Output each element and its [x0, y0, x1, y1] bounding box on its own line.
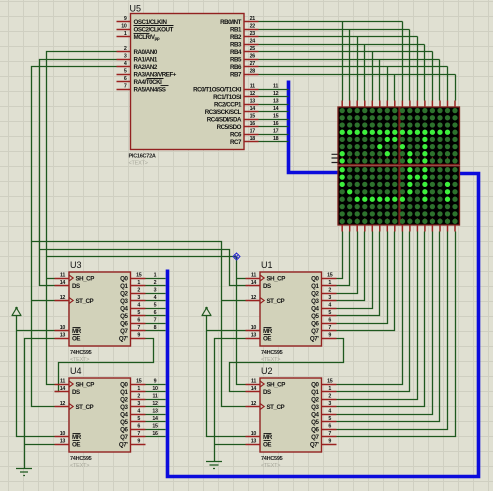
wire RA1/DS net from pin 3	[40, 60, 117, 286]
svg-text:5: 5	[124, 69, 127, 75]
svg-text:RB1: RB1	[230, 26, 242, 33]
svg-text:Q7’: Q7’	[310, 335, 319, 342]
pin 13 (OE) of U1	[246, 333, 272, 343]
svg-text:Q0: Q0	[311, 275, 319, 282]
wire U2 Q6 to matrix column 15	[337, 232, 448, 430]
wire column 8 vertical	[394, 75, 396, 101]
svg-text:6: 6	[124, 76, 127, 82]
svg-text:9: 9	[137, 333, 140, 339]
svg-text:12: 12	[60, 401, 66, 407]
svg-text:6: 6	[154, 310, 157, 316]
pin 22 (RB1) of U5	[230, 24, 259, 34]
svg-text:3: 3	[328, 295, 331, 301]
pin 14 (DS) of U2	[246, 386, 272, 396]
pin 23 (RB2) of U5	[230, 31, 259, 41]
pin 1 (Q1) of U3	[120, 280, 145, 290]
pin 3 (Q3) of U4	[120, 401, 145, 411]
wire branch to U3 SH_CP	[47, 278, 55, 280]
svg-text:16: 16	[250, 121, 256, 127]
svg-text:Q3: Q3	[120, 298, 128, 305]
pin 7 (Q7) of U2	[311, 431, 336, 441]
pin 6 (Q6) of U2	[311, 424, 336, 434]
svg-text:DS: DS	[72, 389, 80, 396]
pin 14 (DS) of U3	[55, 280, 81, 290]
svg-text:16: 16	[152, 431, 158, 437]
svg-text:1: 1	[328, 386, 331, 392]
svg-text:ST_CP: ST_CP	[267, 404, 285, 411]
pin 11 (SH_CP) of U4	[55, 379, 95, 389]
svg-text:14: 14	[60, 280, 66, 286]
svg-text:2: 2	[137, 394, 140, 400]
svg-text:Q3: Q3	[311, 298, 319, 305]
svg-text:Q2: Q2	[311, 290, 319, 297]
svg-text:Q0: Q0	[120, 381, 128, 388]
svg-text:15: 15	[327, 273, 333, 279]
pin 13 (OE) of U3	[55, 333, 81, 343]
svg-text:Q7: Q7	[311, 434, 319, 441]
svg-text:RC0/T1OSO/T1CKI: RC0/T1OSO/T1CKI	[193, 86, 242, 93]
svg-text:7: 7	[328, 325, 331, 331]
wire U2 Q3 to matrix column 12	[337, 232, 425, 407]
svg-text:RC2/CCP1: RC2/CCP1	[214, 101, 242, 108]
svg-text:10: 10	[152, 386, 158, 392]
svg-text:Q1: Q1	[311, 283, 319, 290]
svg-text:10: 10	[60, 431, 66, 437]
svg-text:12: 12	[273, 91, 279, 97]
wire U1 Q6 to matrix column 7	[337, 232, 388, 324]
wire RB6 (pin 27) to matrix columns 7 and 15	[259, 66, 448, 68]
svg-text:Q1: Q1	[120, 283, 128, 290]
svg-text:9: 9	[328, 439, 331, 445]
wire U3 Q0 net 1	[146, 278, 166, 280]
wire U4 Q7 net 16	[146, 436, 166, 438]
svg-text:RA0/AN0: RA0/AN0	[134, 49, 158, 56]
svg-text:11: 11	[251, 273, 256, 279]
pin 16 (RC5/SDO) of U5	[217, 121, 259, 131]
pin 5 (Q5) of U2	[311, 416, 336, 426]
svg-text:13: 13	[60, 333, 66, 339]
bus from RC pins to matrix row pins (left)	[289, 81, 339, 173]
svg-text:DS: DS	[263, 389, 271, 396]
pin 5 (Q5) of U1	[311, 310, 336, 320]
svg-text:<TEXT>: <TEXT>	[261, 357, 280, 363]
svg-text:74HC595: 74HC595	[261, 350, 283, 356]
svg-text:Q2: Q2	[311, 396, 319, 403]
svg-text:74HC595: 74HC595	[70, 456, 92, 462]
pin 5 (RA3/AN3/VREF+) of U5	[117, 69, 177, 79]
wire VCC to U1 MR and U2 MR	[207, 316, 246, 437]
svg-text:4: 4	[137, 409, 140, 415]
svg-text:15: 15	[136, 273, 142, 279]
pin 15 (RC4/SDI/SDA) of U5	[207, 114, 259, 124]
pin 15 (Q0) of U4	[120, 379, 145, 389]
wire U3 OE / U4 OE to ground	[25, 339, 55, 469]
wire RC3 (pin 14) to row bus	[259, 111, 289, 113]
svg-text:3: 3	[154, 288, 157, 294]
svg-text:Q6: Q6	[311, 426, 319, 433]
pin 5 (Q5) of U4	[120, 416, 145, 426]
svg-text:13: 13	[152, 409, 158, 415]
svg-text:11: 11	[60, 273, 65, 279]
pin 1 (Q1) of U4	[120, 386, 145, 396]
svg-text:PIC16C72A: PIC16C72A	[129, 154, 156, 160]
wire U4 Q5 net 14	[146, 421, 166, 423]
wire RB3 (pin 24) to matrix columns 4 and 12	[259, 44, 425, 46]
svg-text:<TEXT>: <TEXT>	[70, 463, 89, 469]
svg-text:RA1/AN1: RA1/AN1	[134, 56, 158, 63]
svg-text:6: 6	[328, 424, 331, 430]
wire U1 Q2 to matrix column 3	[337, 232, 358, 294]
pin 3 (Q3) of U1	[311, 295, 336, 305]
svg-text:MR: MR	[263, 328, 273, 335]
net label 16	[152, 431, 158, 437]
svg-text:RC5/SDO: RC5/SDO	[217, 124, 242, 131]
wire cascade U1 Q7' to U2 DS	[230, 339, 344, 392]
svg-text:11: 11	[250, 84, 255, 90]
net label 14	[152, 416, 158, 422]
svg-text:Q7’: Q7’	[119, 441, 128, 448]
wire RC1 (pin 12) to row bus	[259, 96, 289, 98]
svg-text:4: 4	[328, 303, 331, 309]
svg-text:25: 25	[250, 46, 256, 52]
net label 17	[273, 129, 279, 135]
wire RB4 (pin 25) to matrix columns 5 and 13	[259, 51, 433, 53]
pin 12 (ST_CP) of U1	[246, 295, 285, 305]
wire column 13 vertical	[432, 52, 434, 101]
wire column 1 vertical	[342, 22, 344, 101]
svg-text:4: 4	[154, 295, 157, 301]
svg-text:7: 7	[328, 431, 331, 437]
net label 10	[152, 386, 158, 392]
pin 9 (OSC1/CLKIN) of U5	[117, 16, 168, 26]
svg-text:12: 12	[251, 401, 257, 407]
svg-text:Q1: Q1	[120, 389, 128, 396]
net label 12	[152, 401, 158, 407]
pin 2 (Q2) of U2	[311, 394, 336, 404]
svg-text:Q6: Q6	[120, 320, 128, 327]
pin 1 (Q1) of U1	[311, 280, 336, 290]
bus from U3/U4 outputs around bottom to matrix right	[168, 174, 479, 477]
svg-text:12: 12	[152, 401, 158, 407]
pin 14 (DS) of U1	[246, 280, 272, 290]
svg-text:RC7: RC7	[230, 139, 242, 146]
pin 13 (OE) of U2	[246, 439, 272, 449]
net label 13	[273, 99, 279, 105]
pin 12 (ST_CP) of U3	[55, 295, 94, 305]
svg-text:12: 12	[250, 91, 256, 97]
wire branch to U2 OE	[215, 444, 246, 446]
LED dot-matrix display 16x16 (four 8x8 modules)	[338, 107, 460, 225]
pin 6 (Q6) of U3	[120, 318, 145, 328]
svg-text:5: 5	[328, 310, 331, 316]
pin 2 (Q2) of U1	[311, 288, 336, 298]
wire U3 Q5 net 6	[146, 315, 166, 317]
svg-text:U3: U3	[70, 260, 82, 270]
wire U4 Q4 net 13	[146, 414, 166, 416]
svg-text:6: 6	[137, 318, 140, 324]
svg-text:5: 5	[154, 303, 157, 309]
svg-text:Q1: Q1	[311, 389, 319, 396]
wire RB2 (pin 23) to matrix columns 3 and 11	[259, 36, 418, 38]
svg-text:U4: U4	[70, 366, 82, 376]
wire U4 Q2 net 11	[146, 399, 166, 401]
wire branch to U1 SH_CP	[237, 278, 246, 280]
wire column 11 vertical	[417, 37, 419, 101]
wire column 16 vertical	[455, 75, 457, 101]
svg-text:OE: OE	[72, 335, 80, 342]
wire RB5 (pin 26) to matrix columns 6 and 14	[259, 59, 440, 61]
svg-text:9: 9	[328, 333, 331, 339]
net label 5	[154, 303, 157, 309]
svg-text:28: 28	[250, 69, 256, 75]
svg-text:OSC1/CLKIN: OSC1/CLKIN	[134, 19, 168, 26]
wire branch to U3 MR	[17, 330, 55, 332]
svg-text:9: 9	[154, 379, 157, 385]
svg-text:OSC2/CLKOUT: OSC2/CLKOUT	[134, 26, 174, 33]
net label 16	[273, 121, 279, 127]
net label 12	[273, 91, 279, 97]
wire U2 Q4 to matrix column 13	[337, 232, 433, 415]
svg-text:11: 11	[273, 84, 278, 90]
svg-text:SH_CP: SH_CP	[76, 275, 95, 282]
svg-text:13: 13	[251, 333, 257, 339]
pin 3 (RA1/AN1) of U5	[117, 54, 158, 64]
wire U2 Q7 to matrix column 16	[337, 232, 456, 437]
svg-text:14: 14	[273, 106, 279, 112]
pin 15 (Q0) of U2	[311, 379, 336, 389]
svg-text:Q2: Q2	[120, 290, 128, 297]
wire RC2 (pin 13) to row bus	[259, 104, 289, 106]
pin 10 (MR) of U4	[55, 431, 82, 441]
wire RA2/ST_CP net from pin 4	[32, 67, 117, 407]
wire VCC to U3 MR and U4 MR	[17, 316, 55, 437]
pin 2 (RA0/AN0) of U5	[117, 46, 158, 56]
svg-text:23: 23	[250, 31, 256, 37]
wire column 2 vertical	[349, 30, 351, 101]
net label 1	[154, 273, 157, 279]
svg-text:RB4: RB4	[230, 49, 242, 56]
svg-text:DS: DS	[263, 283, 271, 290]
svg-text:27: 27	[250, 61, 256, 67]
svg-text:4: 4	[328, 409, 331, 415]
pin 13 (OE) of U4	[55, 439, 81, 449]
svg-text:Q5: Q5	[120, 419, 128, 426]
wire U3 Q3 net 4	[146, 300, 166, 302]
svg-text:6: 6	[328, 318, 331, 324]
net label 15	[152, 424, 158, 430]
svg-text:17: 17	[273, 129, 279, 135]
svg-text:1: 1	[154, 273, 157, 279]
wire RC4 (pin 15) to row bus	[259, 119, 289, 121]
svg-text:24: 24	[250, 39, 256, 45]
svg-text:Q0: Q0	[311, 381, 319, 388]
svg-text:RB5: RB5	[230, 56, 242, 63]
net label 7	[154, 318, 157, 324]
svg-text:16: 16	[273, 121, 279, 127]
svg-text:Q4: Q4	[311, 411, 319, 418]
svg-text:Q5: Q5	[311, 313, 319, 320]
wire U1 Q3 to matrix column 4	[337, 232, 365, 301]
svg-text:7: 7	[124, 84, 127, 90]
pin 2 (Q2) of U4	[120, 394, 145, 404]
pin 6 (Q6) of U4	[120, 424, 145, 434]
wire column 12 vertical	[424, 45, 426, 101]
pin 1 (MCLR/V|pp) of U5	[117, 31, 160, 41]
svg-text:11: 11	[251, 379, 256, 385]
wire RC0 (pin 11) to row bus	[259, 89, 289, 91]
svg-text:ST_CP: ST_CP	[267, 298, 285, 305]
svg-text:<TEXT>: <TEXT>	[70, 357, 89, 363]
svg-text:14: 14	[250, 106, 256, 112]
svg-text:10: 10	[121, 24, 127, 30]
net label 4	[154, 295, 157, 301]
svg-text:13: 13	[250, 99, 256, 105]
svg-text:1: 1	[328, 280, 331, 286]
wire column 3 vertical	[357, 37, 359, 101]
svg-text:RC6: RC6	[230, 131, 242, 138]
pin 9 (Q7’) of U4	[119, 439, 146, 449]
svg-text:U5: U5	[130, 4, 142, 14]
wire U4 Q1 net 10	[146, 391, 166, 393]
wire RA0/SH_CP net from pin 2 down left side	[47, 52, 117, 385]
pin 9 (Q7’) of U3	[119, 333, 146, 343]
wire U1 Q7 to matrix column 8	[337, 232, 395, 331]
svg-text:3: 3	[137, 401, 140, 407]
wire U3 Q6 net 7	[146, 323, 166, 325]
pin 7 (Q7) of U1	[311, 325, 336, 335]
svg-text:Q5: Q5	[120, 313, 128, 320]
pin 4 (Q4) of U4	[120, 409, 145, 419]
svg-text:RB2: RB2	[230, 34, 242, 41]
svg-text:10: 10	[251, 431, 257, 437]
pin 14 (RC3/SCK/SCL) of U5	[205, 106, 259, 116]
svg-text:RB3: RB3	[230, 41, 242, 48]
net label 6	[154, 310, 157, 316]
pin 10 (OSC2/CLKOUT) of U5	[117, 24, 174, 34]
svg-text:2: 2	[124, 46, 127, 52]
svg-text:DS: DS	[72, 283, 80, 290]
svg-text:5: 5	[328, 416, 331, 422]
svg-text:8: 8	[154, 325, 157, 331]
wire RB1 (pin 22) to matrix columns 2 and 10	[259, 29, 410, 31]
svg-text:17: 17	[250, 129, 256, 135]
wire U3 Q1 net 2	[146, 285, 166, 287]
svg-text:Q7: Q7	[311, 328, 319, 335]
svg-text:U1: U1	[261, 260, 273, 270]
svg-text:15: 15	[152, 424, 158, 430]
wire U1 Q1 to matrix column 2	[337, 232, 350, 286]
svg-text:<TEXT>: <TEXT>	[129, 161, 148, 167]
svg-text:SH_CP: SH_CP	[267, 381, 286, 388]
wire column 10 vertical	[409, 30, 411, 101]
pin 25 (RB4) of U5	[230, 46, 259, 56]
pin 6 (Q6) of U1	[311, 318, 336, 328]
svg-text:18: 18	[273, 136, 279, 142]
svg-text:MR: MR	[263, 434, 273, 441]
power terminal VCC for U3/U4 MR	[12, 307, 22, 316]
svg-text:OE: OE	[72, 441, 80, 448]
pin 4 (Q4) of U2	[311, 409, 336, 419]
svg-text:2: 2	[137, 288, 140, 294]
pin 10 (MR) of U1	[246, 325, 273, 335]
pin 24 (RB3) of U5	[230, 39, 259, 49]
wire U4 Q3 net 12	[146, 406, 166, 408]
wire RC7 (pin 18) to row bus	[259, 141, 289, 143]
pin 27 (RB6) of U5	[230, 61, 259, 71]
svg-text:Q4: Q4	[311, 305, 319, 312]
svg-text:MR: MR	[72, 328, 82, 335]
svg-text:OE: OE	[263, 335, 271, 342]
svg-text:Q7: Q7	[120, 328, 128, 335]
wire column 5 vertical	[372, 52, 374, 101]
matrix left-side row pin marks	[332, 154, 338, 162]
svg-text:ST_CP: ST_CP	[76, 404, 94, 411]
svg-text:74HC595: 74HC595	[261, 456, 283, 462]
IC U4 (74HC595)	[55, 366, 146, 469]
svg-text:RC1/T1OSI: RC1/T1OSI	[213, 94, 242, 101]
pin 3 (Q3) of U3	[120, 295, 145, 305]
svg-text:2: 2	[154, 280, 157, 286]
svg-text:14: 14	[152, 416, 158, 422]
svg-text:18: 18	[250, 136, 256, 142]
pin 28 (RB7) of U5	[230, 69, 259, 79]
pin 11 (SH_CP) of U1	[246, 273, 286, 283]
pin 7 (RA5/AN4/SS) of U5	[117, 84, 169, 94]
pin 21 (RB0/INT) of U5	[220, 16, 258, 26]
svg-text:Q5: Q5	[311, 419, 319, 426]
svg-text:14: 14	[60, 386, 66, 392]
svg-text:7: 7	[137, 431, 140, 437]
svg-text:11: 11	[60, 379, 65, 385]
svg-text:RB7: RB7	[230, 71, 242, 78]
net label 3	[154, 288, 157, 294]
wire RC5 (pin 16) to row bus	[259, 126, 289, 128]
svg-text:26: 26	[250, 54, 256, 60]
svg-text:U2: U2	[261, 366, 273, 376]
svg-text:6: 6	[137, 424, 140, 430]
svg-text:Q6: Q6	[311, 320, 319, 327]
svg-text:9: 9	[137, 439, 140, 445]
svg-text:Q7’: Q7’	[119, 335, 128, 342]
pin 9 (Q7’) of U2	[310, 439, 337, 449]
wire U3 Q2 net 3	[146, 293, 166, 295]
net label 15	[273, 114, 279, 120]
svg-text:13: 13	[251, 439, 257, 445]
ground symbol left	[16, 469, 32, 476]
wire U1 Q5 to matrix column 6	[337, 232, 380, 316]
svg-text:7: 7	[137, 325, 140, 331]
svg-text:RA3/AN3/VREF+: RA3/AN3/VREF+	[134, 71, 177, 78]
svg-text:Q3: Q3	[311, 404, 319, 411]
matrix bottom pin stubs	[342, 225, 455, 232]
wire U2 Q5 to matrix column 14	[337, 232, 440, 422]
wire A ST_CP to U1/U2	[32, 242, 246, 407]
pin 12 (RC1/T1OSI) of U5	[213, 91, 258, 101]
wire column 15 vertical	[447, 67, 449, 101]
wire branch to U4 OE	[25, 444, 55, 446]
svg-text:15: 15	[136, 379, 142, 385]
svg-text:2: 2	[328, 288, 331, 294]
svg-text:15: 15	[250, 114, 256, 120]
svg-text:<TEXT>: <TEXT>	[261, 463, 280, 469]
IC U5 (PIC16C72A)	[117, 4, 259, 167]
svg-text:Q4: Q4	[120, 305, 128, 312]
pin 6 (RA4/T0CKI) of U5	[117, 76, 164, 86]
wire RC6 (pin 17) to row bus	[259, 134, 289, 136]
wire branch to U3 ST_CP	[32, 300, 55, 302]
wire branch to U1 MR	[207, 330, 246, 332]
svg-text:RB0/INT: RB0/INT	[220, 19, 242, 26]
